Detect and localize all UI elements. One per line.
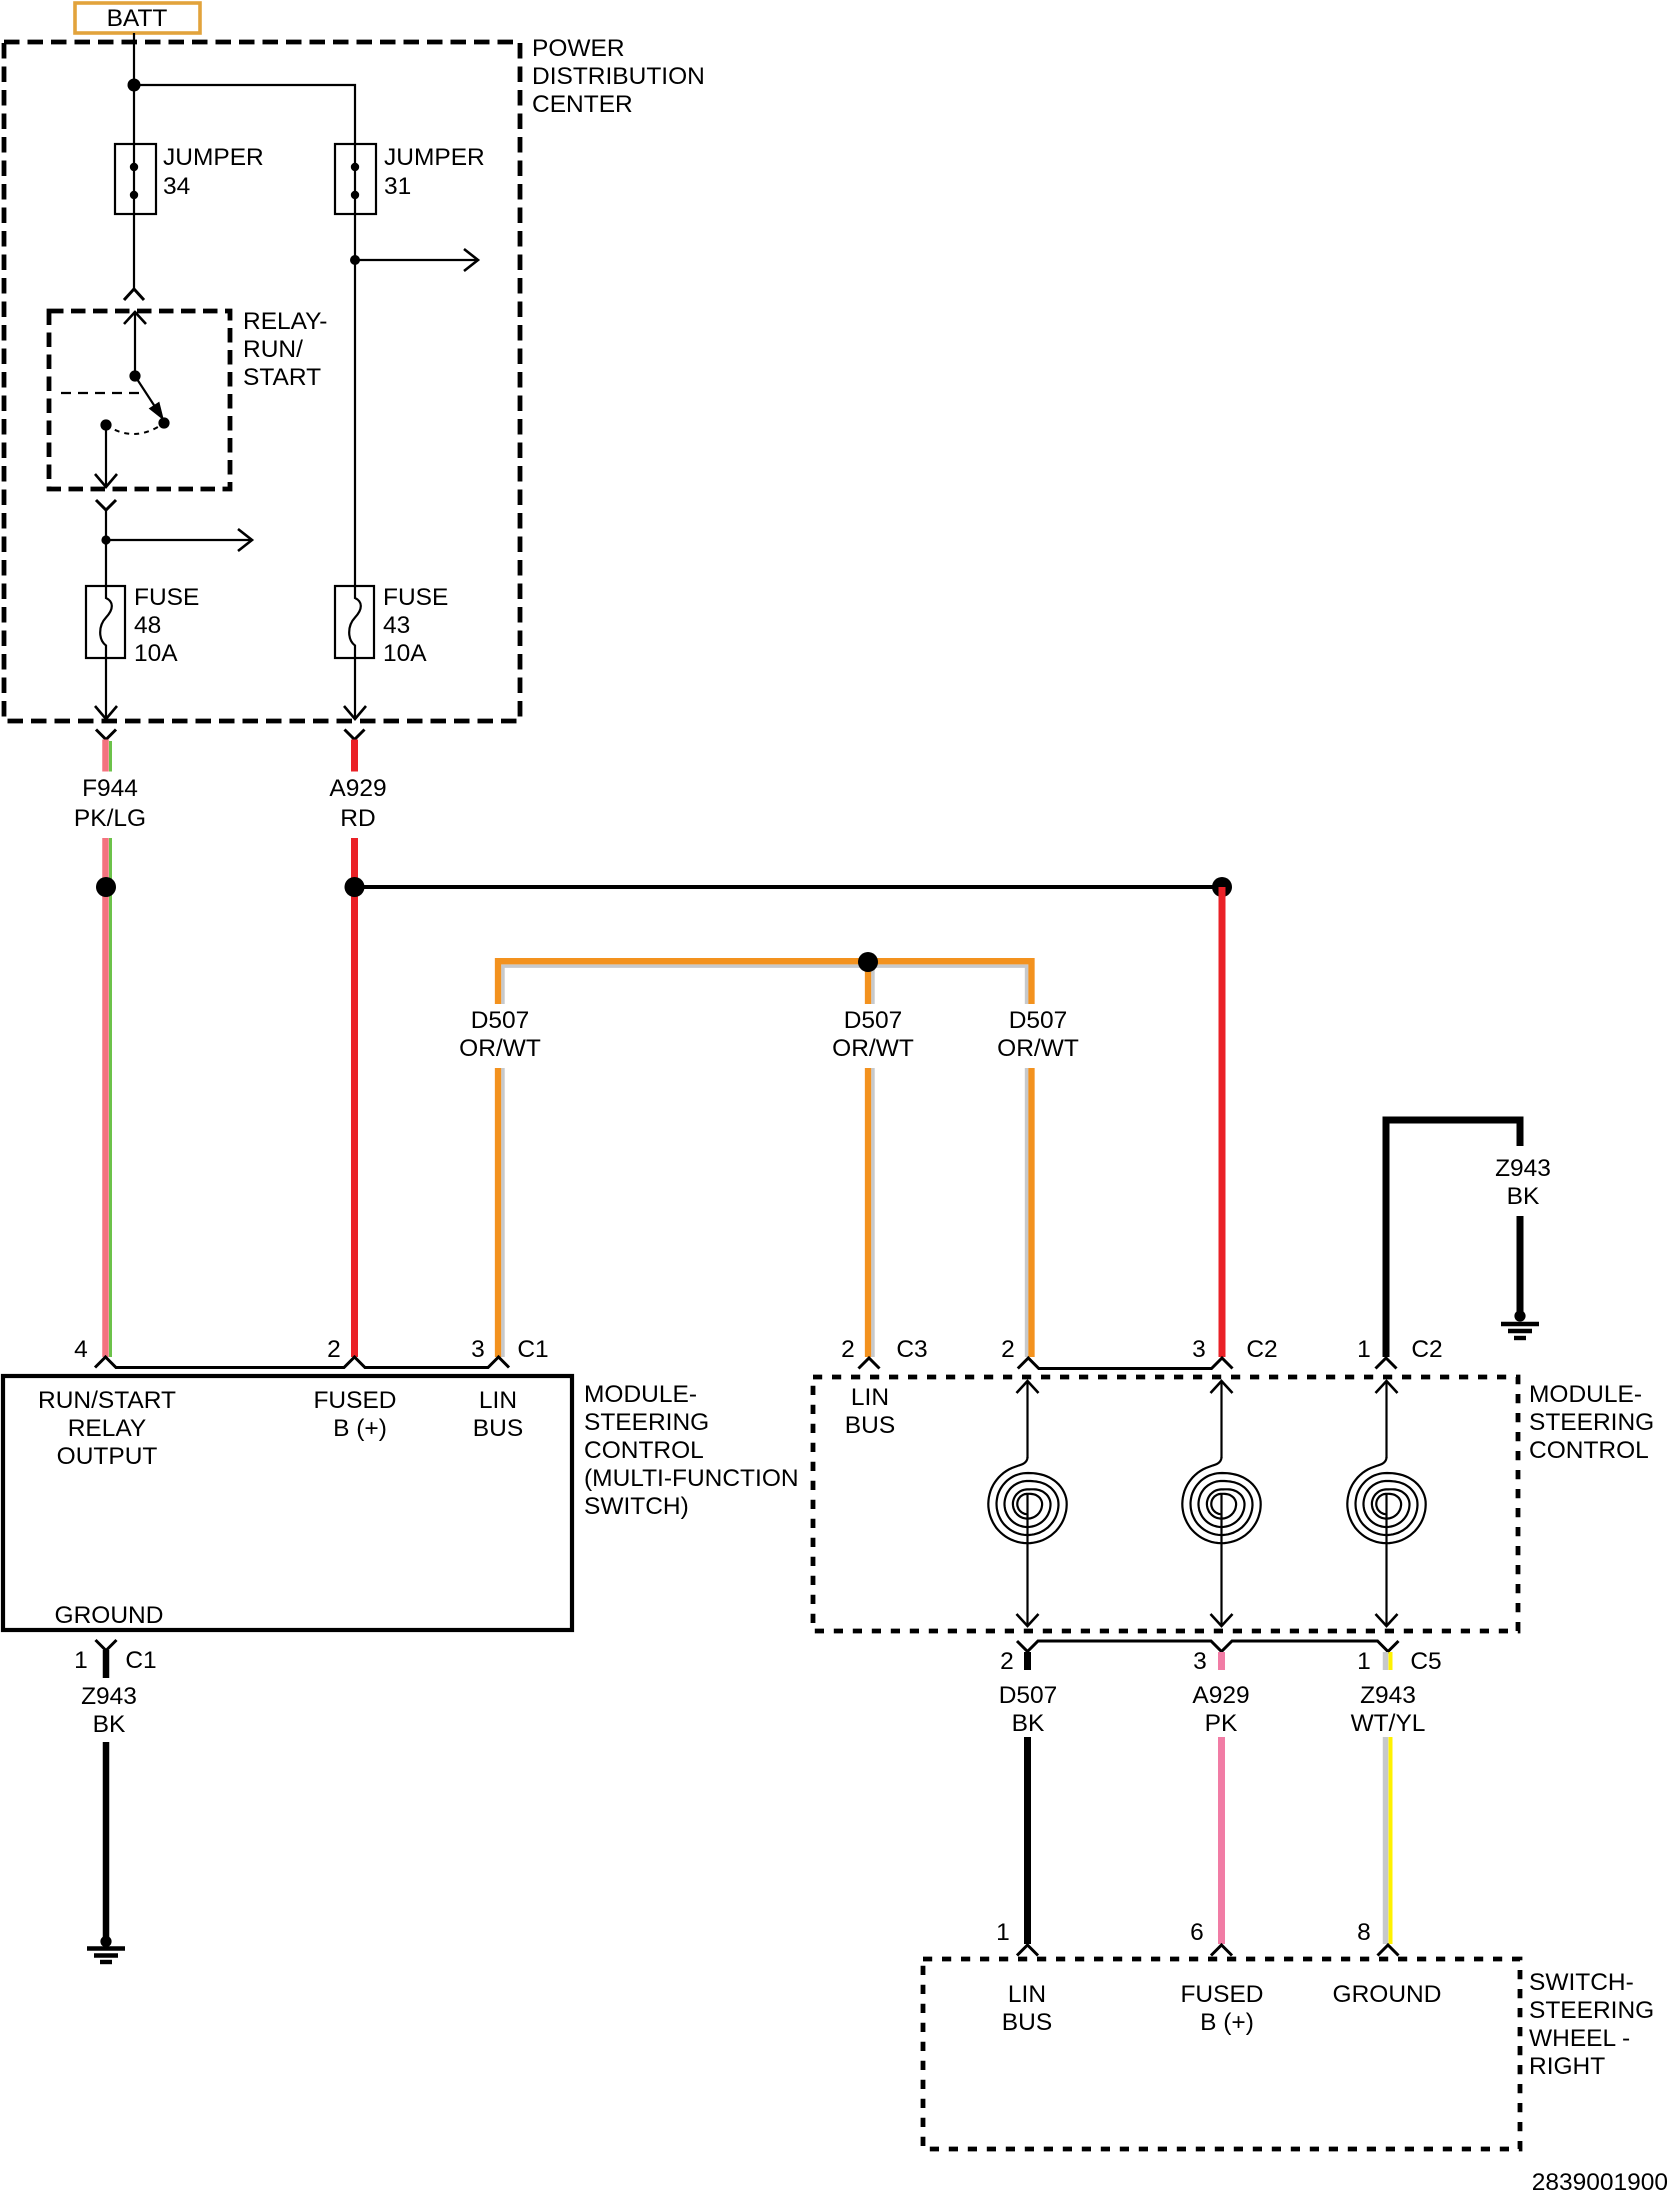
svg-text:FUSED: FUSED [313, 1387, 396, 1414]
pin labels right module bottom [1000, 1648, 1441, 1675]
connector chevron switch pin 6 [1211, 1945, 1232, 1956]
label F944 PK/LG [74, 775, 146, 832]
ground right [1501, 1310, 1539, 1338]
svg-text:JUMPER: JUMPER [163, 144, 264, 171]
svg-text:BK: BK [1012, 1710, 1045, 1737]
svg-text:48: 48 [134, 612, 161, 639]
svg-text:PK: PK [1205, 1710, 1238, 1737]
label Z943 BK left [81, 1683, 137, 1738]
wire A929 RD right drop [1219, 887, 1226, 1357]
svg-text:START: START [243, 364, 321, 391]
svg-text:A929: A929 [329, 775, 386, 802]
svg-text:LIN: LIN [851, 1384, 889, 1411]
svg-text:STEERING: STEERING [584, 1409, 709, 1436]
svg-text:BK: BK [93, 1711, 126, 1738]
svg-text:GROUND: GROUND [1333, 1981, 1442, 2008]
svg-text:D507: D507 [1009, 1007, 1068, 1034]
svg-text:JUMPER: JUMPER [384, 144, 485, 171]
svg-text:MODULE-: MODULE- [1529, 1381, 1642, 1408]
label D507 OR/WT middle [832, 1007, 914, 1062]
clockspring coil 3 [1347, 1457, 1425, 1543]
connector chevron below PDC right [345, 730, 365, 740]
label Z943 WT/YL [1351, 1682, 1426, 1737]
module-steering control box right [813, 1377, 1654, 1631]
fuse 43 [335, 584, 448, 667]
clockspring coil 2 [1182, 1457, 1260, 1543]
svg-text:1: 1 [996, 1919, 1010, 1946]
wire A929 RD upper stub [351, 740, 358, 772]
svg-text:C1: C1 [125, 1647, 156, 1674]
svg-text:OR/WT: OR/WT [997, 1035, 1079, 1062]
wire black bus to right [355, 885, 1223, 889]
svg-text:LIN: LIN [1008, 1981, 1046, 2008]
clockspring column 1 arrows and wire [1017, 1381, 1039, 1626]
jumper 31 [335, 144, 485, 214]
pin labels switch top [996, 1919, 1371, 1946]
svg-text:A929: A929 [1192, 1682, 1249, 1709]
svg-text:BUS: BUS [1002, 2009, 1052, 2036]
svg-text:2: 2 [1001, 1336, 1015, 1363]
svg-text:BUS: BUS [845, 1412, 895, 1439]
svg-text:OUTPUT: OUTPUT [57, 1443, 158, 1470]
pin name LIN BUS right module [845, 1384, 895, 1439]
node jumper31 branch [350, 255, 360, 265]
svg-text:STEERING: STEERING [1529, 1997, 1654, 2024]
svg-text:4: 4 [74, 1336, 88, 1363]
jumper 34 [115, 144, 264, 214]
wire F944 PK/LG to pin 4 [106, 838, 111, 1357]
svg-text:2: 2 [327, 1336, 341, 1363]
relay output arrow [95, 425, 117, 487]
svg-text:OR/WT: OR/WT [459, 1035, 541, 1062]
svg-text:1: 1 [74, 1647, 88, 1674]
svg-text:F944: F944 [82, 775, 138, 802]
wire fuse 48 to PDC exit [95, 658, 117, 719]
label A929 PK [1192, 1682, 1249, 1737]
connector chevron above relay [124, 289, 144, 300]
relay contact dashed arc [106, 423, 164, 434]
svg-text:2: 2 [841, 1336, 855, 1363]
wire Z943 BK top right [1386, 1120, 1520, 1357]
pin labels right module top [841, 1336, 1442, 1363]
connector chevron pin 2 C3 [859, 1358, 880, 1369]
svg-text:B (+): B (+) [333, 1415, 387, 1442]
svg-text:3: 3 [1193, 1648, 1207, 1675]
wire D507 BK stub [1024, 1652, 1031, 1670]
svg-text:STEERING: STEERING [1529, 1409, 1654, 1436]
svg-text:6: 6 [1190, 1919, 1204, 1946]
svg-text:Z943: Z943 [81, 1683, 137, 1710]
ground left [87, 1936, 125, 1962]
svg-text:1: 1 [1357, 1336, 1371, 1363]
svg-text:1: 1 [1357, 1648, 1371, 1675]
connector chevron below PDC left [96, 730, 116, 740]
wire D507 BK to switch [1024, 1737, 1031, 1944]
svg-text:FUSE: FUSE [383, 584, 448, 611]
svg-text:C1: C1 [517, 1336, 548, 1363]
svg-text:3: 3 [471, 1336, 485, 1363]
svg-text:2: 2 [1000, 1648, 1014, 1675]
arrow branch right from relay output [106, 529, 252, 551]
svg-text:C2: C2 [1411, 1336, 1442, 1363]
relay coil dashed line [61, 392, 140, 394]
connector chevron below relay [96, 500, 116, 510]
svg-text:MODULE-: MODULE- [584, 1381, 697, 1408]
svg-text:C2: C2 [1246, 1336, 1277, 1363]
svg-text:D507: D507 [999, 1682, 1058, 1709]
svg-text:GROUND: GROUND [55, 1602, 164, 1629]
relay switch arm [100, 370, 169, 430]
node on F944 wire [96, 877, 116, 897]
svg-text:D507: D507 [471, 1007, 530, 1034]
svg-text:WHEEL -: WHEEL - [1529, 2025, 1630, 2052]
label D507 OR/WT right [997, 1007, 1079, 1062]
connector chevron pin 1 C2 [1376, 1358, 1397, 1369]
label D507 BK [999, 1682, 1058, 1737]
node A929 junction [345, 877, 365, 897]
wire BATT to junction [133, 33, 135, 144]
svg-text:RIGHT: RIGHT [1529, 2053, 1605, 2080]
label Z943 BK right [1495, 1155, 1551, 1210]
pin name LIN BUS left module [473, 1387, 523, 1442]
node right bus junction [1212, 877, 1232, 897]
svg-text:RUN/START: RUN/START [38, 1387, 176, 1414]
svg-text:LIN: LIN [479, 1387, 517, 1414]
pin labels left module top [74, 1336, 548, 1363]
fuse 48 [86, 584, 199, 667]
svg-text:43: 43 [383, 612, 410, 639]
svg-text:Z943: Z943 [1495, 1155, 1551, 1182]
svg-text:D507: D507 [844, 1007, 903, 1034]
svg-text:SWITCH-: SWITCH- [1529, 1969, 1634, 1996]
pin name FUSED B(+) left module [313, 1387, 396, 1442]
pin name LIN BUS switch [1002, 1981, 1052, 2036]
svg-text:CONTROL: CONTROL [1529, 1437, 1649, 1464]
power distribution center box [4, 35, 705, 721]
svg-text:BUS: BUS [473, 1415, 523, 1442]
wire A929 PK stub [1218, 1652, 1225, 1670]
wire D507 OR/WT horizontal bus [498, 961, 1032, 1357]
label D507 OR/WT left [459, 1007, 541, 1062]
relay input arrow [124, 311, 146, 376]
clockspring coil 1 [988, 1457, 1066, 1543]
svg-text:CONTROL: CONTROL [584, 1437, 704, 1464]
svg-text:CENTER: CENTER [532, 91, 633, 118]
svg-text:WT/YL: WT/YL [1351, 1710, 1426, 1737]
switch-steering wheel right box [923, 1959, 1654, 2149]
svg-text:OR/WT: OR/WT [832, 1035, 914, 1062]
wire Z943 BK to ground [103, 1742, 110, 1937]
svg-text:SWITCH): SWITCH) [584, 1493, 689, 1520]
svg-text:BK: BK [1507, 1183, 1540, 1210]
svg-text:FUSED: FUSED [1180, 1981, 1263, 2008]
svg-text:BATT: BATT [107, 5, 168, 32]
svg-text:FUSE: FUSE [134, 584, 199, 611]
svg-text:PK/LG: PK/LG [74, 805, 146, 832]
svg-text:3: 3 [1192, 1336, 1206, 1363]
wire F944 PK/LG upper stub [106, 740, 111, 772]
svg-text:DISTRIBUTION: DISTRIBUTION [532, 63, 705, 90]
pin name FUSED B(+) switch [1180, 1981, 1263, 2036]
pin name RUN/START RELAY OUTPUT [38, 1387, 176, 1470]
wire jumper31 down to fuse 43 [354, 214, 356, 586]
svg-text:RD: RD [340, 805, 375, 832]
svg-text:Z943: Z943 [1360, 1682, 1416, 1709]
svg-text:POWER: POWER [532, 35, 625, 62]
wire fuse 43 to PDC exit [344, 658, 366, 719]
svg-text:C3: C3 [896, 1336, 927, 1363]
wire A929 RD to pin 2 [351, 838, 358, 1357]
clockspring column 2 arrows and wire [1211, 1381, 1233, 1626]
svg-text:B (+): B (+) [1200, 2009, 1254, 2036]
relay-run/start box [49, 308, 327, 489]
svg-text:8: 8 [1357, 1919, 1371, 1946]
svg-text:RELAY: RELAY [68, 1415, 147, 1442]
svg-text:31: 31 [384, 173, 411, 200]
wire jumper 34 down to relay [133, 214, 135, 288]
connector chevron switch pin 8 [1378, 1945, 1399, 1956]
svg-text:RELAY-: RELAY- [243, 308, 327, 335]
node orange bus junction [858, 952, 878, 972]
svg-text:(MULTI-FUNCTION: (MULTI-FUNCTION [584, 1465, 799, 1492]
module-steering control (multi-function switch) box [3, 1376, 799, 1630]
wire Z943 BK stub below left module [103, 1650, 110, 1678]
connector chevron left module bottom [96, 1640, 117, 1651]
svg-text:RUN/: RUN/ [243, 336, 303, 363]
node BATT [75, 3, 200, 33]
connector chevrons left module top [95, 1357, 509, 1368]
wire Z943 WT/YL stub [1386, 1652, 1391, 1670]
connector chevrons right module bottom linked [1017, 1641, 1399, 1652]
svg-text:2839001900: 2839001900 [1532, 2169, 1668, 2192]
node relay output branch [101, 535, 110, 544]
node junction below BATT [128, 79, 141, 92]
wire Z943 WT/YL to switch [1386, 1737, 1391, 1944]
wire A929 PK to switch [1218, 1737, 1225, 1944]
connector chevron switch pin 1 [1017, 1945, 1038, 1956]
wire junction to jumper 31 [134, 85, 355, 144]
svg-text:C5: C5 [1410, 1648, 1441, 1675]
label A929 RD [329, 775, 386, 832]
svg-text:10A: 10A [383, 640, 427, 667]
clockspring column 3 arrows and wire [1376, 1381, 1398, 1626]
wire relay out to fuse 48 [105, 510, 107, 586]
svg-text:34: 34 [163, 173, 190, 200]
svg-text:10A: 10A [134, 640, 178, 667]
connector chevrons pins 2 and 3 C2 linked [1018, 1358, 1233, 1369]
pin labels left module bottom [74, 1647, 156, 1674]
arrow branch right from jumper 31 [355, 249, 478, 271]
